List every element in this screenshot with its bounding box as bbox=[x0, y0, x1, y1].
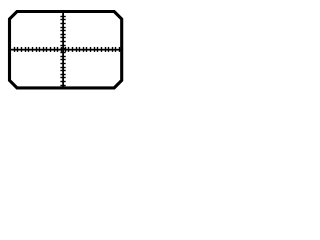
y-axis line bbox=[62, 12, 64, 89]
plot-axes icon bbox=[0, 0, 134, 100]
frame: chamfered rectangle border bbox=[10, 12, 122, 88]
y-axis tick marks bbox=[60, 16, 65, 86]
x-axis tick marks bbox=[14, 47, 120, 52]
x-axis line bbox=[11, 49, 121, 51]
